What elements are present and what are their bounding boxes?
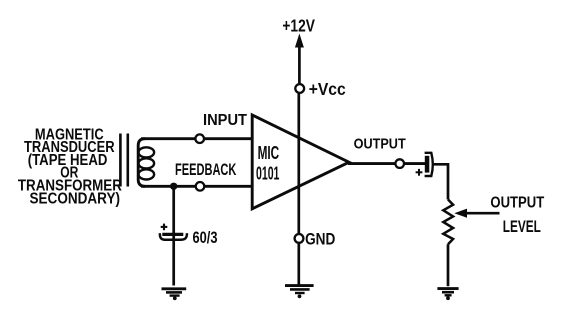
svg-text:OUTPUT: OUTPUT	[490, 195, 544, 212]
svg-text:SECONDARY): SECONDARY)	[30, 191, 121, 208]
svg-text:+Vcc: +Vcc	[309, 79, 346, 99]
svg-text:MIC: MIC	[258, 143, 280, 163]
svg-text:FEEDBACK: FEEDBACK	[175, 161, 236, 179]
svg-text:GND: GND	[305, 229, 335, 248]
svg-text:+12V: +12V	[282, 16, 315, 36]
svg-text:OUTPUT: OUTPUT	[354, 136, 406, 153]
svg-text:INPUT: INPUT	[203, 112, 247, 129]
svg-text:60/3: 60/3	[193, 228, 218, 247]
svg-text:LEVEL: LEVEL	[503, 217, 541, 236]
svg-text:0101: 0101	[256, 163, 279, 183]
